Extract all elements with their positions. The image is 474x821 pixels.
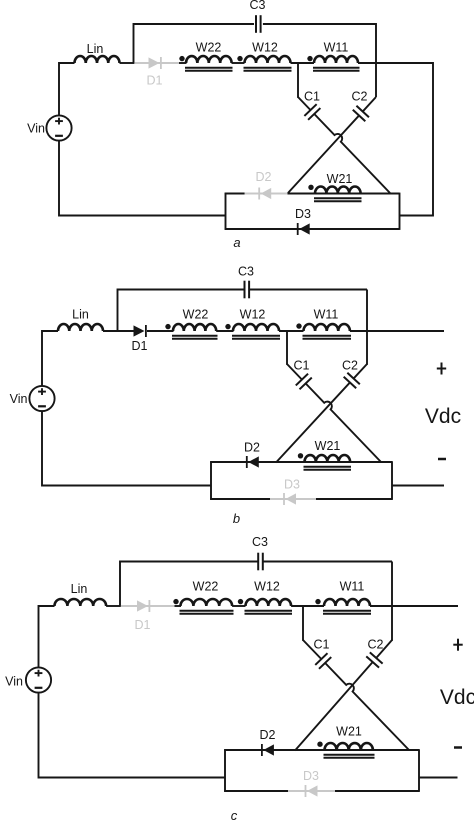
svg-text:W12: W12 [254, 580, 280, 594]
wire C3 left riser (circuit a) [134, 24, 255, 63]
svg-text:D2: D2 [244, 441, 260, 455]
svg-text:W11: W11 [340, 580, 365, 594]
wire box bottom rail D3 segment (circuit b, grey) [270, 498, 316, 500]
wire diagonal through C1 with hop over C2 branch (circuit c) [303, 640, 409, 750]
svg-text:W12: W12 [240, 308, 266, 322]
wire W11 output to right terminal (circuit b) [350, 330, 444, 332]
label - output terminal (circuit b) [438, 458, 446, 461]
diode D1 (circuit b, conducting) [132, 325, 148, 353]
svg-text:W11: W11 [324, 41, 349, 55]
svg-text:a: a [233, 235, 240, 250]
svg-text:W21: W21 [327, 172, 353, 186]
diode D3 (circuit c, inactive) [303, 769, 319, 797]
wire diagonal through C1 with hop over C2 branch (circuit b) [287, 364, 381, 462]
wire W22 to W12 (circuit a) [232, 62, 245, 64]
wire C3/C2 right riser (circuit c) [391, 562, 393, 641]
label c (sub-figure) [231, 808, 238, 821]
svg-text:C1: C1 [314, 638, 330, 652]
label + output terminal (circuit c) [453, 639, 462, 651]
diode D2 (circuit c, conducting) [260, 728, 276, 756]
wire diagonal through C1 with hop over C2 branch (circuit a) [298, 97, 390, 193]
wire C3 left riser (circuit b) [118, 290, 245, 332]
wire Lin to D1 via C3 riser junction (circuit b) [103, 330, 134, 332]
svg-text:C2: C2 [352, 90, 368, 104]
coupled inductor W11 (circuit b) [296, 308, 351, 339]
coupled inductor W11 (circuit a) [307, 41, 359, 71]
svg-text:W21: W21 [315, 439, 341, 453]
svg-text:b: b [233, 511, 240, 526]
wire C3 right top rail (circuit c) [263, 561, 392, 563]
wire W12 to W11 / node for C1 drop (circuit a) [291, 62, 315, 64]
wire box bottom rail left (circuit c) [224, 790, 288, 792]
wire diagonal through C2 (circuit b) [276, 364, 367, 463]
label + output terminal (circuit b) [437, 363, 446, 375]
wire box top rail left segment (circuit a) [225, 193, 245, 195]
svg-text:C1: C1 [294, 359, 310, 373]
wire D1 to W22 (circuit a) [179, 62, 187, 64]
coupled inductor W22 (circuit a) [179, 41, 232, 71]
wire box bottom rail D3 segment (circuit c, grey) [288, 790, 335, 792]
capacitor C3 (circuit b) [238, 265, 254, 299]
wire box top rail (circuit c) [224, 749, 419, 751]
wire W11 output to right edge down to box (circuit a) [358, 63, 433, 216]
label - output terminal (circuit c) [454, 746, 462, 749]
label a (sub-figure) [233, 235, 240, 250]
wire Lin to C3 riser junction (circuit c) [106, 605, 121, 607]
svg-text:Vin: Vin [5, 675, 23, 689]
capacitor C3 (circuit a) [250, 0, 266, 33]
wire box right edge (circuit a) [399, 193, 401, 230]
wire box top rail D2 segment (circuit a, grey) [245, 193, 288, 195]
svg-text:W21: W21 [336, 725, 362, 739]
svg-text:Vdc: Vdc [440, 686, 474, 709]
svg-text:W22: W22 [196, 41, 222, 55]
label Vdc (circuit c) [440, 686, 474, 709]
wire W12 to W11 / node for C1 drop (circuit c) [291, 605, 324, 607]
capacitor C2 (circuit a) [352, 90, 369, 122]
inductor Lin (circuit b) [58, 308, 103, 332]
wire W22 to W12 (circuit c) [232, 605, 245, 607]
wire C1 drop from W12-W11 node (circuit c) [302, 606, 304, 641]
wire D1 to W22 (circuit c) [175, 605, 182, 607]
coupled inductor W12 (circuit a) [237, 41, 291, 71]
svg-text:Lin: Lin [87, 42, 104, 56]
coupled inductor W12 (circuit c) [238, 580, 292, 614]
svg-text:Vdc: Vdc [425, 405, 461, 428]
voltage source Vin (circuit c) [5, 667, 51, 692]
wire box top rail (circuit b) [210, 461, 392, 463]
svg-text:C3: C3 [252, 535, 268, 549]
svg-text:D1: D1 [135, 618, 151, 632]
wire box left edge and Vin return (circuit c) [39, 693, 226, 792]
diode D3 (circuit a) [295, 207, 311, 235]
capacitor C1 (circuit b) [294, 359, 312, 390]
svg-text:C2: C2 [368, 638, 384, 652]
svg-text:D3: D3 [295, 207, 311, 221]
wire C3 left riser (circuit c) [120, 562, 258, 607]
svg-text:C3: C3 [238, 265, 254, 279]
svg-text:C2: C2 [342, 359, 358, 373]
diode D1 (circuit a, inactive) [147, 57, 163, 88]
wire C1 drop from W12-W11 node (circuit b) [286, 331, 288, 365]
wire box bottom rail right (circuit b) [316, 498, 392, 500]
svg-text:D3: D3 [284, 478, 300, 492]
wire Vin to main line (circuit a) [59, 63, 75, 115]
capacitor C3 (circuit c) [252, 535, 268, 570]
wire box right edge (circuit b) [391, 461, 393, 500]
wire C1 drop from W12-W11 node (circuit a) [297, 63, 299, 98]
voltage source Vin (circuit b) [10, 386, 55, 411]
svg-text:C3: C3 [250, 0, 266, 12]
inductor Lin (circuit a) [75, 42, 120, 63]
svg-text:D1: D1 [132, 339, 148, 353]
wire box to output right terminal (circuit b) [392, 485, 444, 487]
svg-text:D1: D1 [147, 74, 163, 88]
wire W12 to W11 / node for C1 drop (circuit b) [279, 330, 304, 332]
svg-text:Vin: Vin [27, 122, 45, 136]
wire box bottom rail left (circuit b) [210, 498, 270, 500]
svg-text:Lin: Lin [71, 582, 88, 596]
svg-text:W22: W22 [183, 308, 209, 322]
diode D2 (circuit b, conducting) [244, 441, 260, 469]
svg-text:D3: D3 [303, 769, 319, 783]
wire box left edge and Vin return (circuit a) [59, 141, 226, 230]
capacitor C1 (circuit a) [304, 90, 320, 120]
coupled inductor W21 (circuit b) [298, 439, 351, 470]
capacitor C2 (circuit b) [342, 359, 360, 389]
wire W11 output to right terminal (circuit c) [370, 605, 458, 607]
coupled inductor W11 (circuit c) [315, 580, 371, 614]
svg-text:c: c [231, 808, 238, 821]
wire box bottom rail right (circuit c) [335, 790, 419, 792]
wire D1 to W22 (circuit b) [147, 330, 174, 332]
svg-text:W22: W22 [193, 580, 219, 594]
wire box top rail right segment (circuit a) [288, 193, 400, 195]
svg-text:W11: W11 [314, 308, 339, 322]
coupled inductor W21 (circuit c) [317, 725, 374, 758]
coupled inductor W12 (circuit b) [225, 308, 280, 339]
svg-text:C1: C1 [304, 90, 320, 104]
wire box right edge (circuit c) [418, 749, 420, 792]
wire anode branch through D1 (circuit a, grey) [134, 62, 179, 64]
svg-text:D2: D2 [256, 170, 272, 184]
label Vdc (circuit b) [425, 405, 461, 428]
voltage source Vin (circuit a) [27, 115, 71, 140]
wire box left edge and Vin return (circuit b) [42, 411, 211, 500]
capacitor C1 (circuit c) [314, 638, 332, 669]
diode D2 (circuit a, inactive) [256, 170, 272, 200]
wire diagonal through C2 (circuit a) [288, 97, 377, 194]
wire W22 to W12 (circuit b) [216, 330, 233, 332]
label b (sub-figure) [233, 511, 240, 526]
wire C3/C2 right riser (circuit b) [366, 290, 368, 365]
svg-text:D2: D2 [260, 728, 276, 742]
inductor Lin (circuit c) [55, 582, 107, 606]
wire Lin to node / C3 riser junction (circuit a) [120, 62, 135, 64]
wire C3 right top rail (circuit b) [249, 289, 367, 291]
svg-text:Lin: Lin [72, 308, 89, 322]
wire diagonal through C2 (circuit c) [295, 640, 392, 751]
diode D3 (circuit b, inactive) [284, 478, 300, 506]
coupled inductor W22 (circuit c) [173, 580, 233, 614]
wire box to output right terminal (circuit c) [419, 777, 458, 779]
wire Vin to main line (circuit c) [39, 606, 55, 667]
wire C3 right to corner riser (circuit a) [263, 24, 376, 97]
svg-text:Vin: Vin [10, 392, 28, 406]
wire box bottom rail (circuit a) [225, 228, 400, 230]
coupled inductor W22 (circuit b) [165, 308, 217, 339]
wire anode branch through D1 (circuit c, grey) [121, 605, 175, 607]
capacitor C2 (circuit c) [366, 638, 383, 668]
coupled inductor W21 (circuit a) [308, 172, 361, 201]
wire Vin to main line (circuit b) [42, 331, 58, 386]
diode D1 (circuit c, inactive) [135, 600, 151, 632]
svg-text:W12: W12 [252, 41, 278, 55]
